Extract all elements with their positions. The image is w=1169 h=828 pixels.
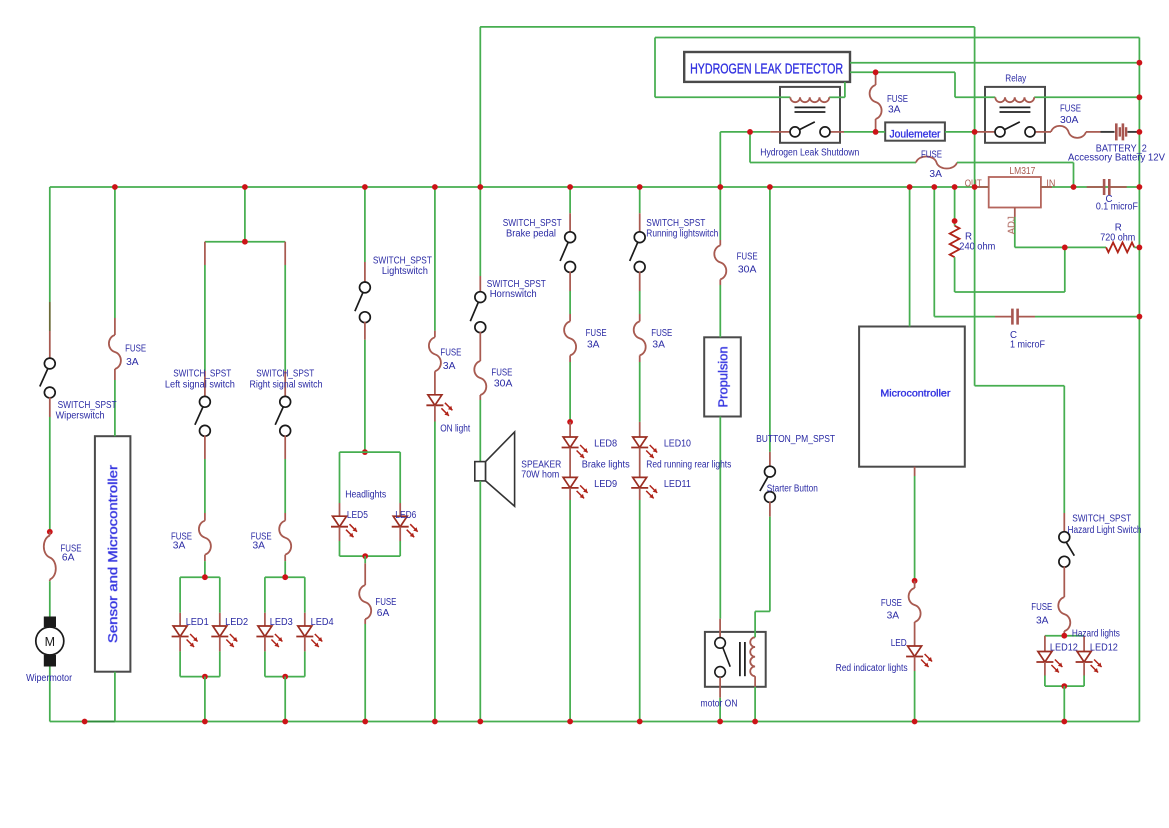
svg-text:70W hom: 70W hom [521,469,559,480]
svg-text:240 ohm: 240 ohm [959,242,995,253]
svg-text:Brake pedal: Brake pedal [506,229,556,240]
svg-text:ON light: ON light [440,424,470,435]
svg-text:FUSE: FUSE [586,328,607,339]
svg-text:Hazard Light Switch: Hazard Light Switch [1068,525,1142,536]
svg-text:IN: IN [1046,178,1055,189]
svg-text:Wiperswitch: Wiperswitch [56,411,105,422]
svg-text:3A: 3A [587,339,600,350]
svg-text:LED2: LED2 [225,617,248,628]
svg-text:SWITCH_SPST: SWITCH_SPST [646,218,705,229]
svg-text:LED10: LED10 [664,438,692,449]
svg-text:FUSE: FUSE [440,348,461,359]
svg-text:6A: 6A [377,608,390,619]
svg-text:3A: 3A [652,339,665,350]
svg-text:LED3: LED3 [270,617,293,628]
svg-text:Red running rear lights: Red running rear lights [646,460,731,471]
svg-text:ADJ: ADJ [1007,216,1018,234]
svg-text:3A: 3A [126,357,139,368]
svg-text:FUSE: FUSE [887,94,908,105]
svg-text:LED9: LED9 [594,479,617,490]
svg-text:BUTTON_PM_SPST: BUTTON_PM_SPST [756,434,835,445]
svg-text:LED5: LED5 [347,510,368,521]
svg-text:Starter Button: Starter Button [767,484,818,495]
svg-text:Lightswitch: Lightswitch [382,266,428,277]
svg-text:LM317: LM317 [1009,166,1035,177]
svg-text:30A: 30A [738,265,757,276]
svg-text:Right signal switch: Right signal switch [250,379,323,390]
svg-text:FUSE: FUSE [1060,104,1081,115]
svg-text:SWITCH_SPST: SWITCH_SPST [373,256,432,267]
svg-text:Left signal switch: Left signal switch [165,379,235,390]
svg-text:720 ohm: 720 ohm [1100,232,1135,243]
svg-text:LED12: LED12 [1090,642,1118,653]
svg-text:0.1 microF: 0.1 microF [1096,202,1138,213]
svg-text:LED6: LED6 [395,510,416,521]
svg-text:3A: 3A [887,611,900,622]
svg-text:3A: 3A [888,105,901,116]
svg-text:Brake lights: Brake lights [582,460,630,471]
svg-text:SWITCH_SPST: SWITCH_SPST [58,400,117,411]
svg-text:1 microF: 1 microF [1010,339,1045,350]
svg-text:Running lightswitch: Running lightswitch [646,229,718,240]
svg-text:Accessory Battery 12V: Accessory Battery 12V [1068,153,1166,164]
svg-text:3A: 3A [443,361,456,372]
svg-text:LED4: LED4 [311,617,335,628]
svg-text:FUSE: FUSE [921,150,942,161]
svg-text:Hornswitch: Hornswitch [490,289,537,300]
svg-text:Microcontroller: Microcontroller [880,388,951,399]
svg-text:LED8: LED8 [594,438,617,449]
svg-text:LED12: LED12 [1050,642,1078,653]
svg-text:LED: LED [891,638,907,649]
svg-text:FUSE: FUSE [1031,602,1052,613]
svg-text:motor ON: motor ON [701,698,738,709]
svg-text:Joulemeter: Joulemeter [890,128,941,140]
svg-text:M: M [45,635,55,649]
svg-text:FUSE: FUSE [491,368,512,379]
svg-text:Wipermotor: Wipermotor [26,673,73,684]
svg-text:Red indicator lights: Red indicator lights [836,663,908,674]
svg-text:Hydrogen Leak Shutdown: Hydrogen Leak Shutdown [760,148,859,159]
svg-text:3A: 3A [1036,615,1049,626]
svg-text:3A: 3A [929,169,942,180]
svg-text:SWITCH_SPST: SWITCH_SPST [503,218,562,229]
svg-text:6A: 6A [62,552,75,563]
svg-text:FUSE: FUSE [651,328,672,339]
svg-text:Headlights: Headlights [345,489,386,500]
svg-text:SWITCH_SPST: SWITCH_SPST [1072,514,1131,525]
svg-text:Hazard lights: Hazard lights [1072,629,1120,640]
svg-text:3A: 3A [173,541,186,552]
svg-text:LED1: LED1 [186,617,209,628]
svg-text:FUSE: FUSE [375,597,396,608]
svg-text:SWITCH_SPST: SWITCH_SPST [173,369,231,380]
svg-text:FUSE: FUSE [881,598,902,609]
svg-text:30A: 30A [494,378,513,389]
svg-text:HYDROGEN LEAK DETECTOR: HYDROGEN LEAK DETECTOR [690,62,843,78]
svg-text:Relay: Relay [1005,74,1026,85]
svg-text:FUSE: FUSE [125,344,146,355]
svg-text:SWITCH_SPST: SWITCH_SPST [256,369,314,380]
svg-text:Propulsion: Propulsion [716,346,730,407]
svg-text:Sensor and Microcontroller: Sensor and Microcontroller [106,465,120,643]
svg-text:FUSE: FUSE [737,252,758,263]
svg-text:30A: 30A [1060,115,1079,126]
svg-text:LED11: LED11 [664,479,691,490]
svg-text:3A: 3A [253,541,266,552]
